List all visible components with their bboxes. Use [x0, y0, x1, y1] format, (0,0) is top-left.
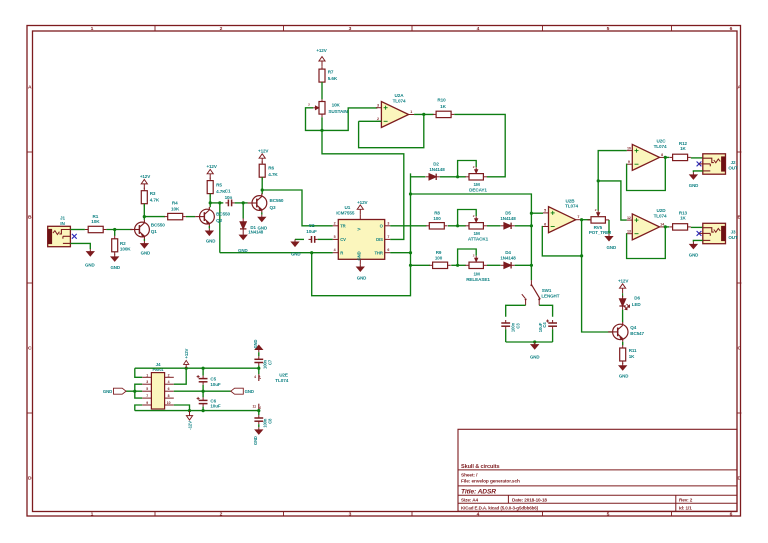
svg-text:4.7K: 4.7K	[268, 172, 278, 177]
wire U2D feedback	[627, 227, 666, 259]
svg-text:DIS: DIS	[376, 237, 383, 242]
svg-text:R3: R3	[150, 191, 156, 196]
svg-text:R10: R10	[437, 98, 446, 103]
op-amp U2D TL074	[632, 214, 659, 240]
wire sustain bottom to U1 DIS	[322, 117, 404, 239]
svg-text:+12V: +12V	[357, 200, 367, 205]
wire R8 to attack pot	[448, 225, 466, 227]
svg-text:12: 12	[627, 216, 631, 220]
power +12V at R3	[143, 184, 145, 189]
svg-text:4: 4	[477, 512, 480, 518]
svg-text:OUT: OUT	[728, 235, 738, 240]
wire U2B output to RV5	[581, 219, 590, 221]
svg-text:6: 6	[168, 387, 170, 391]
resistor R8 100	[426, 225, 429, 227]
op-amp U2A TL074	[381, 102, 408, 128]
wire U2C feedback	[627, 157, 666, 190]
transistor Q1 BC550	[135, 222, 150, 237]
capacitor C7 100n	[258, 352, 260, 356]
node down-branch to U1 reset row	[218, 201, 221, 204]
title block	[458, 429, 737, 511]
svg-text:13: 13	[627, 230, 631, 234]
wire D2 to decay pot	[440, 176, 466, 178]
svg-text:B: B	[738, 215, 742, 221]
svg-text:R: R	[340, 250, 343, 255]
svg-text:10K: 10K	[171, 206, 180, 211]
svg-text:ATTACK1: ATTACK1	[468, 236, 489, 241]
svg-text:10uF: 10uF	[210, 382, 221, 387]
wire to R2	[114, 230, 116, 236]
diode D5 1N4148	[501, 225, 504, 227]
svg-text:5: 5	[607, 26, 610, 32]
svg-text:9: 9	[628, 160, 630, 164]
wire C2 to U1 CV pin	[318, 238, 333, 240]
svg-text:Q2: Q2	[216, 218, 222, 223]
svg-text:C3: C3	[516, 323, 521, 329]
svg-text:D: D	[28, 476, 32, 482]
power -12V at J4	[189, 411, 191, 416]
svg-text:100K: 100K	[120, 247, 131, 252]
svg-text:U2D: U2D	[657, 208, 667, 213]
svg-text:7: 7	[387, 235, 389, 239]
svg-text:A: A	[28, 85, 32, 91]
ground C2 left	[295, 238, 304, 240]
wire column to U2B+ input	[531, 212, 543, 214]
wire gnd bus to GND label	[126, 390, 142, 392]
ground J3	[692, 242, 694, 245]
svg-text:C: C	[28, 346, 32, 352]
svg-text:+12V: +12V	[206, 164, 216, 169]
svg-text:10uF: 10uF	[306, 229, 317, 234]
wire J4 pins 3-5-7 ground bus	[135, 384, 142, 398]
svg-text:GND: GND	[253, 339, 258, 348]
wire U1 output to R8	[390, 225, 426, 227]
svg-text:1: 1	[91, 512, 94, 518]
svg-text:V: V	[356, 228, 361, 231]
resistor R9 100	[429, 264, 432, 266]
wire down from C1 node	[219, 203, 221, 253]
transistor Q4 BC547	[613, 324, 628, 339]
node feedback junction	[580, 254, 583, 257]
capacitor C8 100n	[258, 411, 260, 415]
wire decay diode branch	[411, 176, 426, 178]
svg-text:GND: GND	[689, 252, 699, 257]
svg-text:GND: GND	[103, 389, 112, 394]
svg-text:BC550: BC550	[270, 198, 284, 203]
svg-text:GND: GND	[607, 245, 617, 250]
wire J1 sleeve to ground	[70, 243, 90, 249]
wire timing column to R9	[411, 264, 431, 266]
global label GND right	[231, 388, 244, 394]
wire down to D1	[242, 203, 244, 219]
svg-text:D4: D4	[505, 250, 511, 255]
node U2B output	[580, 218, 583, 221]
svg-text:8: 8	[168, 394, 170, 398]
node C8 -12V rail	[257, 409, 260, 412]
svg-text:10n: 10n	[225, 195, 233, 200]
wire J4 pin2 to +12V rail	[174, 368, 186, 384]
diode D4 1N4148	[501, 264, 504, 266]
node wiper branch	[597, 179, 600, 182]
potentiometer RV2 1M DECAY1	[465, 176, 469, 178]
no-connect J1 ring	[72, 234, 77, 239]
node sustain bottom crossing	[320, 129, 323, 132]
svg-text:GND: GND	[245, 389, 254, 394]
svg-text:C6: C6	[210, 398, 216, 403]
svg-text:THR: THR	[374, 250, 382, 255]
svg-text:KiCad E.D.A. kicad (5.0.0-3-g: KiCad E.D.A. kicad (5.0.0-3-g5dbb6b6)	[461, 506, 539, 511]
transistor Q3 BC550	[252, 196, 267, 211]
ground R11	[622, 363, 624, 366]
ground Q2 emitter	[208, 226, 210, 228]
svg-text:BC547: BC547	[630, 331, 644, 336]
svg-text:-12V: -12V	[188, 421, 193, 430]
wire U2D output to R13	[665, 226, 669, 228]
wire J4 pin6 ground row right	[174, 390, 231, 392]
potentiometer RV5 POT_TRIM	[587, 219, 591, 221]
LED D6	[622, 293, 624, 297]
svg-text:1: 1	[410, 110, 412, 114]
resistor R10 1K	[433, 113, 436, 115]
connector J2 output jack	[703, 154, 726, 174]
svg-text:GND: GND	[619, 373, 629, 378]
svg-text:R7: R7	[328, 70, 334, 75]
wire release pot to D4	[487, 264, 501, 266]
svg-text:+12V: +12V	[258, 149, 268, 154]
svg-text:4: 4	[168, 380, 170, 384]
wire RV5 right to ground	[608, 220, 610, 234]
svg-text:U1: U1	[345, 205, 351, 210]
wire R10 to decay pot right	[454, 114, 505, 176]
svg-text:2: 2	[377, 117, 379, 121]
wire collector to C1	[210, 202, 223, 204]
svg-text:5.6K: 5.6K	[328, 76, 338, 81]
diode D1 1N4148	[242, 219, 244, 222]
svg-text:BC550: BC550	[151, 223, 165, 228]
svg-text:6: 6	[730, 26, 733, 32]
node +12V tap	[185, 367, 188, 370]
svg-text:D: D	[738, 476, 742, 482]
power +12V at R7	[321, 61, 323, 66]
svg-text:GND: GND	[141, 251, 151, 256]
wire U2B feedback	[542, 227, 581, 256]
capacitor C3 100n	[505, 320, 507, 323]
svg-text:Q3: Q3	[270, 205, 276, 210]
svg-text:TL074: TL074	[275, 378, 288, 383]
svg-text:Date: 2018-10-18: Date: 2018-10-18	[512, 498, 547, 503]
capacitor C4 10uF	[552, 320, 554, 323]
svg-text:1M: 1M	[473, 231, 479, 236]
potentiometer RV1 10K SUSTAIN	[321, 99, 323, 101]
svg-text:5: 5	[146, 387, 148, 391]
wire C4 to bottom rail	[552, 329, 554, 342]
wire bottom loop reset to timing node	[312, 173, 411, 295]
svg-text:6: 6	[730, 512, 733, 518]
svg-text:2: 2	[334, 221, 336, 225]
svg-text:D5: D5	[505, 211, 511, 216]
svg-text:3: 3	[377, 104, 379, 108]
svg-text:11: 11	[252, 405, 256, 409]
svg-text:GND: GND	[110, 265, 120, 270]
svg-text:3: 3	[349, 512, 352, 518]
svg-text:OUT: OUT	[728, 166, 738, 171]
node column decay-attack	[530, 224, 533, 227]
svg-text:GND: GND	[85, 263, 95, 268]
wire -12V rail	[135, 410, 259, 412]
svg-text:1M: 1M	[473, 182, 479, 187]
node caps ground	[533, 340, 536, 343]
wire J4 pin10 to -12V rail	[174, 405, 190, 411]
wire LED to Q4 collector	[622, 310, 624, 323]
node U2A output	[422, 113, 425, 116]
svg-text:7: 7	[146, 394, 148, 398]
svg-text:LED: LED	[632, 302, 642, 307]
svg-text:A: A	[738, 85, 742, 91]
svg-text:D6: D6	[634, 296, 640, 301]
svg-text:3: 3	[349, 26, 352, 32]
svg-text:Q4: Q4	[630, 325, 636, 330]
wire J2 sleeve to ground	[693, 171, 702, 172]
ground Q1 emitter	[143, 239, 145, 241]
op-amp U2C TL074	[632, 144, 659, 170]
svg-text:8: 8	[661, 153, 663, 157]
wire cap bottom rail	[506, 341, 553, 343]
transistor Q2 BC550	[200, 209, 215, 224]
wire D4 to input column	[515, 264, 532, 266]
resistor R1 10K	[85, 229, 88, 231]
ground J1	[89, 249, 91, 252]
node attack pot left	[456, 224, 459, 227]
svg-text:R4: R4	[172, 201, 178, 206]
ground SW caps	[534, 342, 536, 345]
wire R5 to Q2 collector	[209, 194, 211, 208]
svg-text:4: 4	[477, 26, 480, 32]
wire J4 pin9 to -12V rail	[135, 405, 142, 411]
resistor R2 100K	[114, 236, 116, 239]
node Q3 collector	[261, 188, 264, 191]
svg-text:1N4148: 1N4148	[500, 256, 516, 261]
node D1 branch	[242, 201, 245, 204]
wire R4 to Q2 base	[186, 216, 195, 218]
resistor R5 4.7K	[209, 178, 211, 181]
global label GND left	[114, 388, 127, 394]
svg-text:File: envelop generator.sch: File: envelop generator.sch	[461, 478, 520, 484]
node column U2B+	[530, 212, 533, 215]
svg-text:TL074: TL074	[654, 214, 667, 219]
wire C1 to Q3 base	[235, 202, 248, 204]
svg-text:GND: GND	[356, 251, 361, 260]
wire release pot loop	[458, 249, 477, 265]
svg-text:J1: J1	[60, 215, 65, 220]
svg-text:U2C: U2C	[657, 139, 667, 144]
wire Q3 collector node to U1 TR pin	[262, 190, 333, 226]
svg-text:100: 100	[433, 216, 441, 221]
svg-text:6: 6	[387, 248, 389, 252]
svg-text:RELEASE1: RELEASE1	[466, 277, 490, 282]
svg-text:2: 2	[168, 373, 170, 377]
svg-text:Sheet: /: Sheet: /	[461, 472, 478, 478]
svg-text:SUSTAIN: SUSTAIN	[328, 109, 348, 114]
node timing column to R9 row	[409, 264, 412, 267]
wire R9 to release pot	[451, 264, 466, 266]
svg-text:GND: GND	[258, 226, 268, 231]
node C5 top	[202, 367, 205, 370]
potentiometer RV4 1M RELEASE1	[465, 264, 469, 266]
svg-text:Rev: 2: Rev: 2	[679, 498, 693, 503]
resistor R3 4.7K	[143, 188, 145, 191]
no-connect J3 ring	[697, 231, 702, 236]
svg-text:B: B	[28, 215, 32, 221]
svg-text:R2: R2	[120, 241, 126, 246]
capacitor C5 10uF	[202, 368, 204, 375]
node Q1 collector	[143, 215, 146, 218]
svg-text:J2: J2	[731, 160, 736, 165]
wire J4 pin1 to +12V rail	[135, 368, 142, 377]
wire C3 to bottom rail	[505, 329, 507, 342]
ground Q3 emitter	[261, 213, 263, 215]
svg-text:Q1: Q1	[151, 229, 157, 234]
ground U1	[359, 264, 361, 267]
svg-text:1K: 1K	[629, 354, 635, 359]
no-connect J2 ring	[697, 162, 702, 167]
node -12V tap	[188, 409, 191, 412]
svg-text:+12V: +12V	[618, 279, 628, 284]
wire J3 sleeve to ground	[693, 240, 702, 241]
resistor R12 1K	[669, 156, 672, 158]
svg-text:C5: C5	[210, 377, 216, 382]
svg-text:R5: R5	[216, 182, 222, 187]
power +12V at J4	[185, 364, 187, 368]
svg-text:C8: C8	[268, 418, 273, 424]
wire U2A feedback	[359, 120, 382, 122]
svg-text:GND: GND	[530, 355, 540, 360]
svg-text:1K: 1K	[680, 216, 686, 221]
svg-text:10: 10	[627, 146, 631, 150]
svg-text:5: 5	[334, 235, 336, 239]
wire decay line to input column	[411, 194, 532, 280]
wire D5 to input column	[515, 225, 532, 227]
svg-text:4.7K: 4.7K	[150, 198, 160, 203]
svg-text:CV: CV	[340, 237, 346, 242]
connector J1 input jack	[48, 226, 71, 246]
node decay pot left	[456, 175, 459, 178]
svg-text:R9: R9	[436, 250, 442, 255]
wire collector node to R4	[144, 216, 165, 218]
node U2D output	[664, 225, 667, 228]
wire U2A output to R10	[414, 113, 433, 115]
svg-text:DECAY1: DECAY1	[469, 187, 487, 192]
wire reset row to U1 R pin	[220, 252, 333, 254]
svg-text:TL074: TL074	[654, 144, 667, 149]
svg-text:BC550: BC550	[216, 212, 230, 217]
svg-text:4: 4	[334, 248, 336, 252]
svg-text:C7: C7	[268, 359, 273, 365]
wire sustain wiper loop to U2A+	[306, 108, 378, 131]
connector J4 power header	[151, 373, 164, 409]
wire R6 to Q3 collector node	[261, 177, 263, 194]
ground D1	[242, 233, 244, 236]
svg-text:TL074: TL074	[393, 99, 406, 104]
ground above C7	[258, 350, 260, 353]
wire R3 to Q1 collector	[143, 204, 145, 220]
node column release	[530, 264, 533, 267]
svg-text:IN: IN	[60, 221, 65, 226]
svg-text:GND: GND	[357, 275, 367, 280]
svg-text:V+: V+	[258, 375, 262, 379]
svg-text:C4: C4	[542, 322, 547, 328]
node gnd bus	[133, 390, 136, 393]
svg-text:+12V: +12V	[316, 48, 326, 53]
resistor R11 1K	[622, 345, 624, 348]
resistor R7 5.6K	[321, 66, 323, 69]
svg-text:1K: 1K	[680, 146, 686, 151]
wire attack pot loop	[458, 210, 477, 226]
wire U1 THR to timing column	[390, 252, 410, 254]
svg-text:TR: TR	[340, 223, 345, 228]
svg-text:U2A: U2A	[395, 93, 405, 98]
switch SW1 LENGHT	[530, 280, 532, 284]
capacitor C1 10n	[225, 202, 228, 204]
wire Q4 emitter to R11	[622, 342, 624, 346]
connector J3 output jack	[703, 223, 726, 243]
ground below C8	[258, 427, 260, 430]
svg-text:R6: R6	[268, 165, 274, 170]
svg-text:100: 100	[435, 256, 443, 261]
node R1-R2	[113, 228, 116, 231]
svg-text:GND: GND	[689, 183, 699, 188]
IC U1 ICM7555	[338, 220, 384, 260]
wire R1 to Q1 base	[106, 229, 132, 231]
svg-text:Title: ADSR: Title: ADSR	[461, 489, 496, 496]
resistor R6 4.7K	[261, 161, 263, 164]
power +12V at R5	[209, 174, 211, 179]
node release pot left	[456, 264, 459, 267]
ground RV5	[608, 234, 610, 237]
svg-text:3: 3	[387, 221, 389, 225]
svg-text:R1: R1	[93, 214, 99, 219]
svg-text:1N4148: 1N4148	[500, 216, 516, 221]
svg-text:1: 1	[146, 373, 148, 377]
wire U2B output down to Q4 base	[582, 220, 613, 332]
power +12V at LED	[622, 288, 624, 293]
resistor R13 1K	[669, 226, 672, 228]
node THR on timing column	[409, 251, 412, 254]
ground R2	[114, 254, 116, 257]
svg-text:U2B: U2B	[566, 198, 576, 203]
op-amp U2E power pins	[258, 374, 260, 381]
svg-text:R8: R8	[434, 211, 440, 216]
svg-text:10K: 10K	[332, 102, 341, 107]
svg-text:C1: C1	[225, 189, 231, 194]
svg-text:4: 4	[254, 375, 256, 379]
svg-text:1K: 1K	[440, 104, 446, 109]
wire U2C output to R12	[665, 156, 669, 158]
svg-text:LENGHT: LENGHT	[541, 293, 559, 298]
svg-text:Skull & circuits: Skull & circuits	[461, 464, 499, 470]
svg-text:R11: R11	[629, 348, 637, 353]
svg-text:GND: GND	[291, 251, 301, 256]
svg-text:5: 5	[544, 209, 546, 213]
ground J2	[692, 172, 694, 175]
svg-text:10uF: 10uF	[210, 404, 221, 409]
power +12V at U1	[359, 209, 361, 214]
op-amp U2B TL074	[549, 207, 576, 233]
svg-text:2: 2	[220, 26, 223, 32]
node C5 bottom gnd row	[202, 390, 205, 393]
wire SW1 right throw to C4	[539, 305, 552, 316]
svg-text:+12V: +12V	[184, 348, 189, 358]
wire +12V rail	[135, 367, 259, 369]
